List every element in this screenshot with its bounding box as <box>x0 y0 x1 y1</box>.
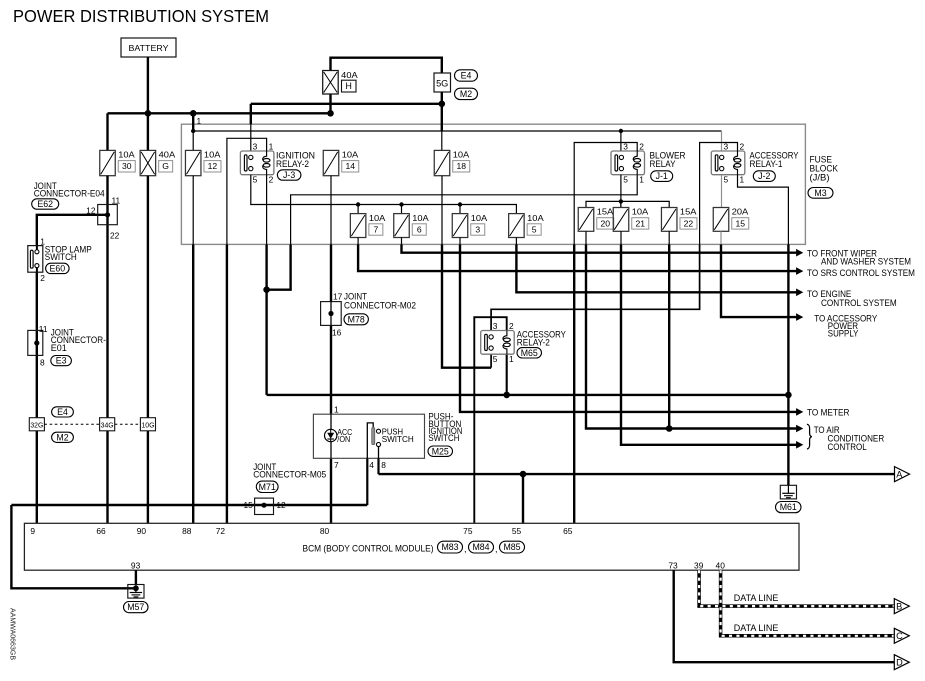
svg-text:J-1: J-1 <box>656 171 668 181</box>
svg-text:M57: M57 <box>127 602 144 612</box>
svg-text:E4: E4 <box>57 407 68 417</box>
svg-text:66: 66 <box>96 526 106 536</box>
svg-text:10A: 10A <box>527 213 544 223</box>
svg-text:1: 1 <box>334 404 339 414</box>
svg-text:M2: M2 <box>460 89 472 99</box>
svg-text:SWITCH: SWITCH <box>382 434 414 444</box>
svg-text:20A: 20A <box>732 207 749 217</box>
svg-text:M65: M65 <box>521 348 538 358</box>
svg-text:10G: 10G <box>141 420 154 429</box>
svg-text:E4: E4 <box>461 71 472 81</box>
svg-text:RELAY-2: RELAY-2 <box>276 159 309 169</box>
svg-text:G: G <box>162 161 169 171</box>
svg-text:75: 75 <box>463 526 473 536</box>
svg-text:11: 11 <box>39 324 48 334</box>
svg-text:M85: M85 <box>503 542 520 552</box>
svg-text:10A: 10A <box>204 150 221 160</box>
svg-text:93: 93 <box>131 560 141 570</box>
svg-text:(J/B): (J/B) <box>810 173 830 183</box>
svg-text:M83: M83 <box>441 542 458 552</box>
svg-text:DATA LINE: DATA LINE <box>734 593 779 603</box>
svg-text:12: 12 <box>208 161 218 171</box>
svg-text:M78: M78 <box>348 314 365 324</box>
svg-text:3: 3 <box>475 224 480 234</box>
svg-text:15A: 15A <box>680 207 697 217</box>
svg-text:TO SRS CONTROL SYSTEM: TO SRS CONTROL SYSTEM <box>807 268 915 278</box>
svg-text:15A: 15A <box>597 207 614 217</box>
svg-text:RELAY: RELAY <box>650 159 676 169</box>
svg-text:2: 2 <box>639 141 644 151</box>
svg-text:2: 2 <box>40 273 45 283</box>
svg-text:E62: E62 <box>37 199 53 209</box>
svg-text:18: 18 <box>456 161 466 171</box>
svg-text:12: 12 <box>276 500 286 510</box>
svg-text:8: 8 <box>40 357 45 367</box>
svg-text:39: 39 <box>694 560 704 570</box>
svg-text:2: 2 <box>269 175 274 185</box>
svg-text:5G: 5G <box>436 78 448 88</box>
svg-text:,: , <box>495 544 498 554</box>
svg-text:40A: 40A <box>341 70 358 80</box>
svg-text:32G: 32G <box>30 420 43 429</box>
svg-text:22: 22 <box>110 231 120 241</box>
svg-text:15: 15 <box>735 218 745 228</box>
svg-text:5: 5 <box>532 224 537 234</box>
svg-text:E01: E01 <box>51 343 67 353</box>
svg-text:H: H <box>346 81 352 91</box>
svg-text:90: 90 <box>137 526 147 536</box>
svg-text:2: 2 <box>509 321 514 331</box>
svg-text:CONTROL: CONTROL <box>828 442 867 452</box>
svg-text:CONNECTOR-E04: CONNECTOR-E04 <box>34 189 105 199</box>
svg-text:9: 9 <box>30 526 35 536</box>
svg-text:E3: E3 <box>56 356 67 366</box>
svg-text:AND WASHER SYSTEM: AND WASHER SYSTEM <box>821 257 911 267</box>
svg-text:6: 6 <box>417 224 422 234</box>
svg-text:AAMWA0663GB: AAMWA0663GB <box>9 608 16 660</box>
svg-text:C: C <box>896 631 903 641</box>
svg-text:J-2: J-2 <box>758 171 770 181</box>
svg-text:5: 5 <box>724 175 729 185</box>
svg-text:BCM (BODY CONTROL MODULE): BCM (BODY CONTROL MODULE) <box>303 542 434 553</box>
svg-text:SWITCH: SWITCH <box>45 252 77 262</box>
svg-text:12: 12 <box>86 205 96 215</box>
svg-text:CONNECTOR-M02: CONNECTOR-M02 <box>344 300 416 310</box>
svg-text:/ON: /ON <box>337 435 350 444</box>
svg-text:10A: 10A <box>369 213 386 223</box>
svg-text:16: 16 <box>332 327 342 337</box>
svg-text:M84: M84 <box>472 542 489 552</box>
svg-text:M61: M61 <box>780 502 797 512</box>
svg-text:21: 21 <box>635 218 645 228</box>
svg-text:M3: M3 <box>814 188 826 198</box>
svg-text:10A: 10A <box>412 213 429 223</box>
svg-text:SWITCH: SWITCH <box>428 433 459 443</box>
svg-text:CONTROL SYSTEM: CONTROL SYSTEM <box>821 298 897 308</box>
svg-text:7: 7 <box>373 224 378 234</box>
svg-text:M2: M2 <box>56 432 68 442</box>
svg-text:1: 1 <box>197 116 202 126</box>
svg-text:65: 65 <box>563 526 573 536</box>
svg-text:10A: 10A <box>471 213 488 223</box>
svg-text:A: A <box>896 470 903 480</box>
svg-text:80: 80 <box>320 526 330 536</box>
svg-text:B: B <box>896 602 902 612</box>
svg-text:1: 1 <box>509 354 514 364</box>
svg-text:5: 5 <box>493 354 498 364</box>
svg-text:4: 4 <box>369 460 374 470</box>
svg-text:5: 5 <box>253 175 258 185</box>
svg-text:10A: 10A <box>342 150 359 160</box>
svg-text:M25: M25 <box>432 446 449 456</box>
svg-text:7: 7 <box>334 460 339 470</box>
svg-text:1: 1 <box>269 141 274 151</box>
svg-text:POWER DISTRIBUTION SYSTEM: POWER DISTRIBUTION SYSTEM <box>13 6 269 26</box>
svg-text:1: 1 <box>740 175 745 185</box>
svg-text:1: 1 <box>639 175 644 185</box>
svg-text:11: 11 <box>112 195 121 205</box>
svg-text:10A: 10A <box>453 150 470 160</box>
svg-text:73: 73 <box>668 560 678 570</box>
svg-text:RELAY-2: RELAY-2 <box>517 338 550 348</box>
svg-text:BATTERY: BATTERY <box>129 43 169 53</box>
svg-text:10A: 10A <box>632 207 649 217</box>
svg-text:,: , <box>464 544 467 554</box>
svg-text:E60: E60 <box>50 264 66 274</box>
svg-text:20: 20 <box>600 218 610 228</box>
svg-text:72: 72 <box>216 526 226 536</box>
svg-text:CONNECTOR-M05: CONNECTOR-M05 <box>253 470 326 480</box>
svg-text:15: 15 <box>243 500 253 510</box>
svg-text:17: 17 <box>333 291 343 301</box>
svg-text:40: 40 <box>716 560 726 570</box>
svg-text:55: 55 <box>512 526 522 536</box>
svg-text:8: 8 <box>381 460 386 470</box>
svg-text:SUPPLY: SUPPLY <box>828 328 859 338</box>
svg-text:RELAY-1: RELAY-1 <box>750 159 783 169</box>
svg-text:30: 30 <box>122 161 132 171</box>
svg-text:D: D <box>896 658 903 668</box>
svg-text:88: 88 <box>182 526 192 536</box>
svg-text:2: 2 <box>740 141 745 151</box>
svg-text:3: 3 <box>253 141 258 151</box>
svg-text:22: 22 <box>684 218 694 228</box>
svg-text:10A: 10A <box>118 150 135 160</box>
svg-text:34G: 34G <box>101 420 114 429</box>
svg-text:J-3: J-3 <box>283 170 295 180</box>
svg-text:DATA LINE: DATA LINE <box>734 623 779 633</box>
svg-text:TO METER: TO METER <box>807 407 849 417</box>
svg-text:14: 14 <box>345 161 355 171</box>
svg-text:3: 3 <box>493 321 498 331</box>
svg-text:M71: M71 <box>259 482 276 492</box>
svg-text:40A: 40A <box>159 150 176 160</box>
svg-text:5: 5 <box>623 175 628 185</box>
